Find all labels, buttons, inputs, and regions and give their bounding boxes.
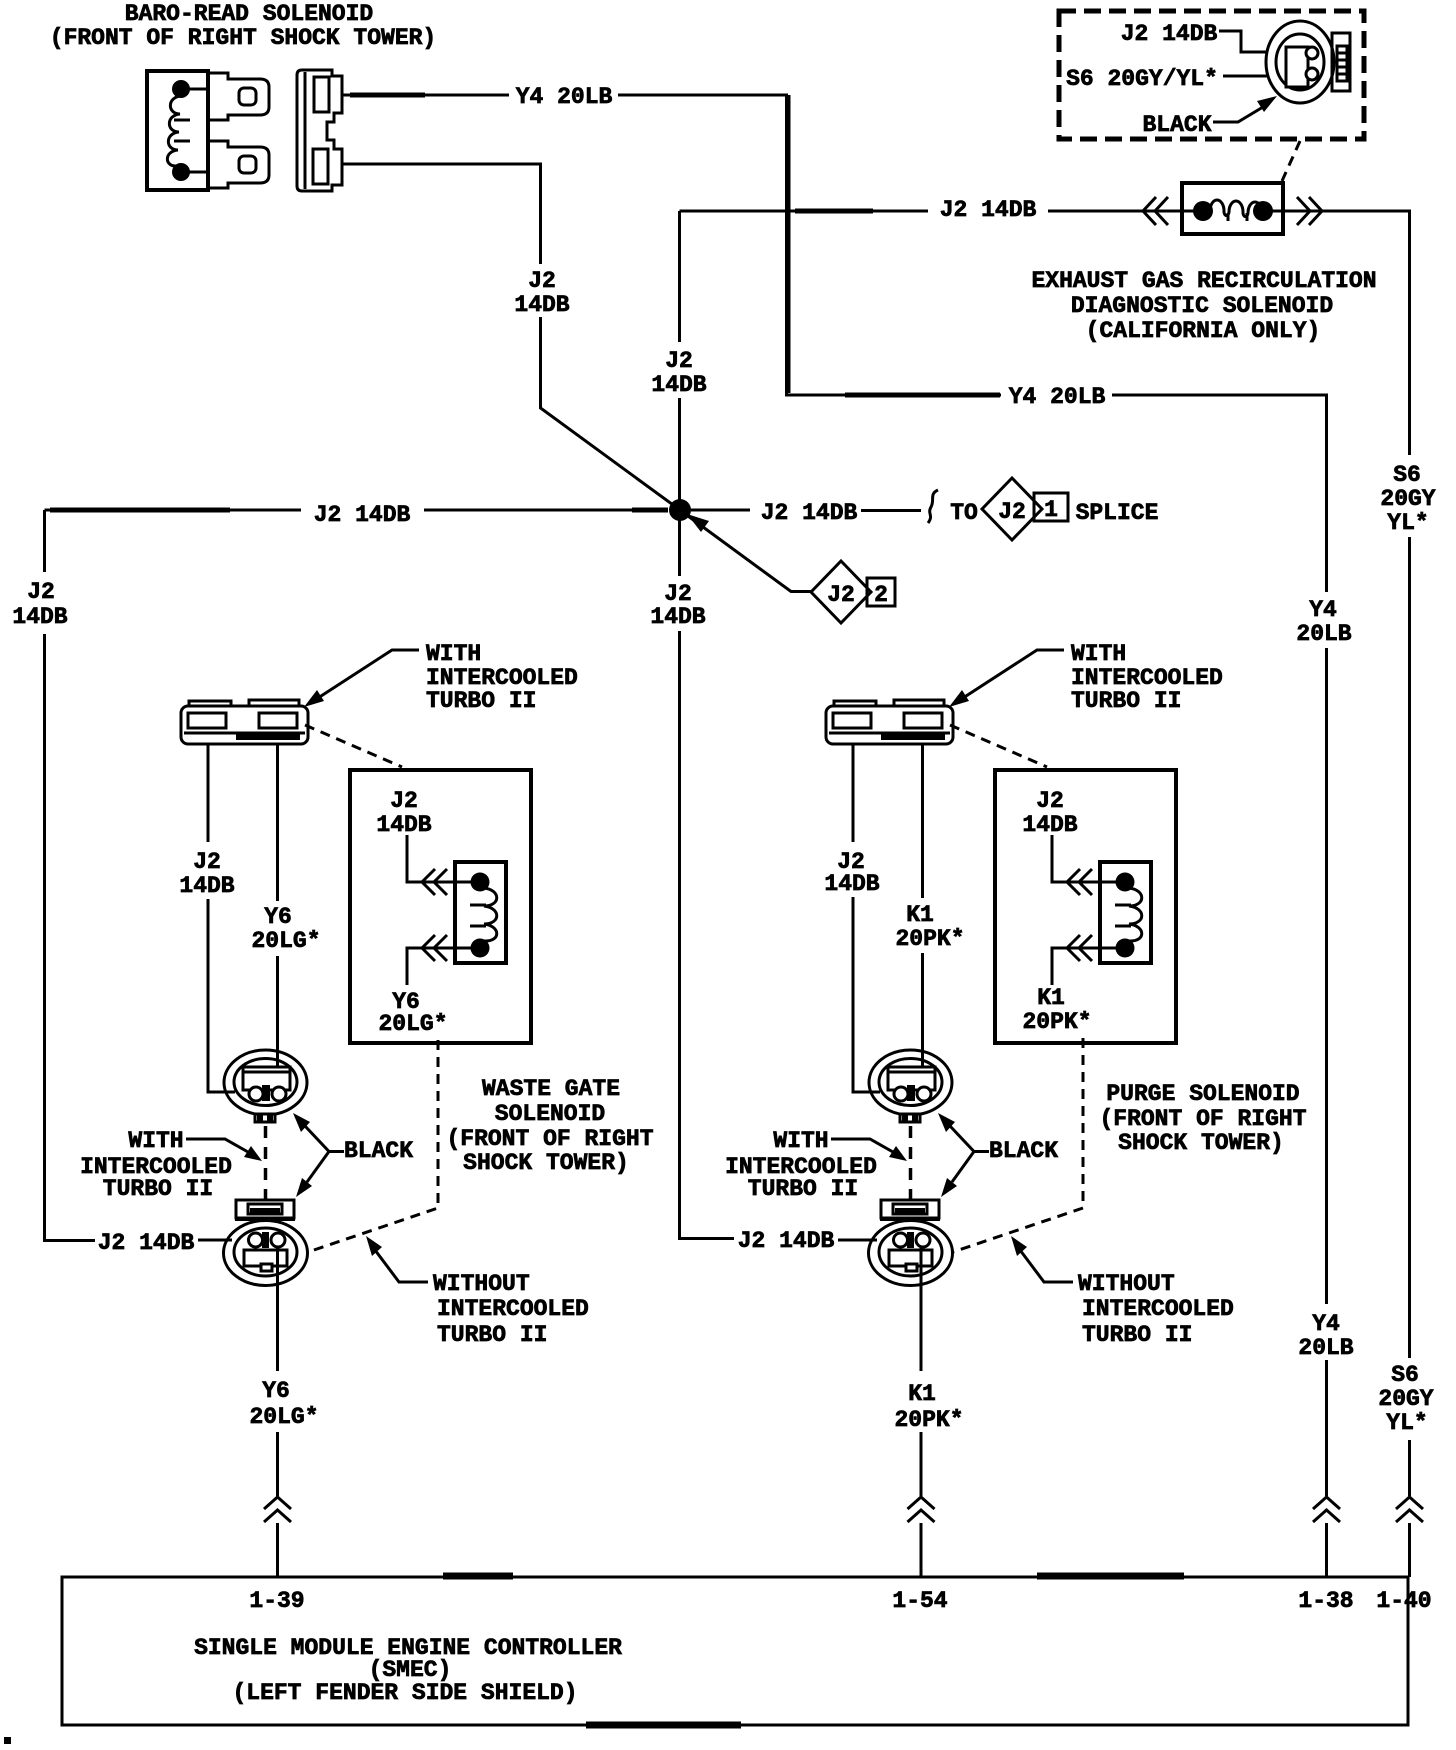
label WITH INTERCOOLED TURBO II (upper left) bbox=[426, 641, 578, 714]
wire J2 14DB from baro-read lower pin bbox=[342, 164, 541, 264]
svg-text:Y6: Y6 bbox=[262, 1378, 290, 1404]
svg-text:J2 14DB: J2 14DB bbox=[738, 1228, 835, 1254]
svg-text:DIAGNOSTIC SOLENOID: DIAGNOSTIC SOLENOID bbox=[1071, 293, 1333, 319]
svg-text:20PK*: 20PK* bbox=[1022, 1009, 1091, 1035]
waste gate coil bbox=[470, 873, 497, 958]
svg-text:INTERCOOLED: INTERCOOLED bbox=[1082, 1296, 1234, 1322]
wire Y6 into SMEC bbox=[276, 1523, 279, 1577]
svg-text:20LB: 20LB bbox=[1298, 1335, 1353, 1361]
dashed mating line (waste gate connectors) bbox=[264, 1126, 268, 1199]
label Y6 20LG* in waste gate box bbox=[378, 989, 447, 1037]
svg-text:WITHOUT: WITHOUT bbox=[1078, 1271, 1175, 1297]
svg-text:14DB: 14DB bbox=[179, 873, 234, 899]
label J2 14DB on x540 wire bbox=[514, 268, 569, 318]
inline connector chevrons << bbox=[1143, 197, 1168, 225]
svg-text:EXHAUST GAS RECIRCULATION: EXHAUST GAS RECIRCULATION bbox=[1031, 268, 1376, 294]
leader diagonal from splice to diamond 2 bbox=[688, 516, 811, 592]
svg-text:TURBO II: TURBO II bbox=[1082, 1322, 1192, 1348]
svg-text:1-54: 1-54 bbox=[892, 1588, 947, 1614]
baro-read upper terminal blade bbox=[208, 73, 269, 120]
wire Y4 20LB into right vertical bbox=[1112, 395, 1327, 592]
wire Y4 into SMEC bbox=[1325, 1523, 1328, 1577]
svg-text:J2: J2 bbox=[1036, 788, 1064, 814]
baro-read mating connector bbox=[297, 70, 342, 191]
label J2 14DB x679 upper bbox=[651, 348, 706, 398]
SMEC box edge thick marks bbox=[443, 1573, 1184, 1580]
label S6 20GY YL* (lower) bbox=[1378, 1362, 1433, 1436]
leader WITH side arrow bbox=[186, 1139, 262, 1161]
label Y4 20LB (upper vertical) bbox=[1296, 597, 1351, 647]
svg-text:14DB: 14DB bbox=[651, 372, 706, 398]
upper round connector (waste gate) bbox=[224, 1050, 307, 1122]
svg-text:S6: S6 bbox=[1391, 1362, 1419, 1388]
wire Y6 in waste gate box bbox=[407, 948, 472, 985]
arrowhead at splice bbox=[687, 514, 709, 532]
label WITH INTERCOOLED TURBO II (upper right) bbox=[1071, 641, 1223, 714]
wire S6 into SMEC bbox=[1408, 1523, 1411, 1577]
svg-text:TO: TO bbox=[950, 500, 978, 526]
dashed wire K1 without-turbo route bbox=[953, 1038, 1083, 1252]
svg-text:WITHOUT: WITHOUT bbox=[433, 1271, 530, 1297]
2-cavity connector (waste gate, top view) bbox=[181, 700, 308, 744]
lower round connector (waste gate) bbox=[224, 1200, 308, 1286]
wire J2 14DB into EGR solenoid bbox=[1048, 210, 1200, 213]
svg-text:TURBO II: TURBO II bbox=[748, 1176, 858, 1202]
svg-text:20LG*: 20LG* bbox=[378, 1011, 447, 1037]
label J2 14DB (right branch) bbox=[824, 849, 879, 897]
svg-text:1-38: 1-38 bbox=[1298, 1588, 1353, 1614]
svg-text:BLACK: BLACK bbox=[1142, 112, 1211, 138]
wire J2 14DB into lower connector bbox=[198, 1239, 232, 1242]
label Y4 20LB (lower) bbox=[1298, 1311, 1353, 1361]
label EXHAUST GAS RECIRCULATION DIAGNOSTIC SOLENOID bbox=[1031, 268, 1376, 344]
connector chevrons at SMEC (S6) bbox=[1396, 1497, 1423, 1522]
label J2 14DB in waste gate box bbox=[376, 788, 431, 838]
svg-text:(FRONT OF RIGHT: (FRONT OF RIGHT bbox=[1099, 1106, 1306, 1132]
svg-text:TURBO II: TURBO II bbox=[437, 1322, 547, 1348]
svg-text:J2: J2 bbox=[390, 788, 418, 814]
leader BLACK with arrow bbox=[1213, 96, 1277, 122]
wire Y6 through lower connector bbox=[276, 1247, 279, 1371]
svg-text:(FRONT OF RIGHT: (FRONT OF RIGHT bbox=[446, 1126, 653, 1152]
wire splice to TO-splice symbol bbox=[691, 509, 750, 512]
label WASTE GATE SOLENOID bbox=[446, 1076, 653, 1176]
chevrons << lower (waste gate) bbox=[422, 935, 447, 961]
svg-text:1-39: 1-39 bbox=[249, 1588, 304, 1614]
lower round connector (purge) bbox=[869, 1200, 953, 1286]
wire S6 to SMEC bbox=[1408, 1440, 1411, 1496]
label WITH INTERCOOLED TURBO II (side right) bbox=[725, 1128, 877, 1202]
wire J2 14DB EGR (left segment) bbox=[680, 210, 929, 213]
svg-text:20PK*: 20PK* bbox=[895, 926, 964, 952]
svg-text:14DB: 14DB bbox=[1022, 812, 1077, 838]
SMEC controller box bbox=[62, 1577, 1408, 1725]
svg-text:SOLENOID: SOLENOID bbox=[495, 1101, 605, 1127]
waste gate coil box bbox=[455, 862, 506, 963]
svg-text:S6 20GY/YL*: S6 20GY/YL* bbox=[1066, 66, 1218, 92]
svg-text:Y4: Y4 bbox=[1309, 597, 1337, 623]
wire J2 14DB vertical x679 (top) bbox=[678, 211, 681, 342]
svg-text:WITH: WITH bbox=[1071, 641, 1126, 667]
thick scan segments on wires bbox=[50, 95, 1000, 510]
leader BLACK two arrows bbox=[293, 1113, 344, 1197]
label K1 20PK* (upper) bbox=[895, 902, 964, 952]
label K1 20PK* in purge box bbox=[1022, 985, 1091, 1035]
baro-read solenoid body bbox=[147, 71, 208, 190]
svg-text:1: 1 bbox=[1044, 497, 1058, 523]
svg-text:J2 14DB: J2 14DB bbox=[761, 500, 858, 526]
EGR connector side tab bbox=[1332, 33, 1350, 91]
leader BLACK two arrows (purge) bbox=[938, 1113, 989, 1197]
svg-text:YL*: YL* bbox=[1387, 510, 1428, 536]
svg-text:14DB: 14DB bbox=[824, 871, 879, 897]
wire J2 14DB main horizontal (left) bbox=[45, 509, 302, 512]
svg-text:Y4 20LB: Y4 20LB bbox=[516, 84, 613, 110]
wire J2 14DB x679 through splice bbox=[678, 398, 681, 500]
label J2 14DB left vertical bbox=[12, 579, 67, 630]
svg-text:Y6: Y6 bbox=[264, 904, 292, 930]
label WITH INTERCOOLED TURBO II (side left) bbox=[80, 1128, 232, 1202]
wire J2 14DB in waste gate box bbox=[407, 835, 472, 882]
connector chevrons at SMEC (K1) bbox=[908, 1497, 935, 1522]
label K1 20PK* (lower) bbox=[894, 1381, 963, 1433]
leader WITH side arrow (purge) bbox=[831, 1139, 907, 1161]
EGR solenoid box bbox=[1182, 183, 1283, 234]
wire S6 vertical bbox=[1408, 537, 1411, 1358]
svg-text:J2: J2 bbox=[27, 579, 55, 605]
svg-text:(LEFT FENDER SIDE SHIELD): (LEFT FENDER SIDE SHIELD) bbox=[232, 1680, 577, 1706]
svg-text:BLACK: BLACK bbox=[344, 1138, 413, 1164]
svg-text:WITH: WITH bbox=[128, 1128, 183, 1154]
wire K1 in purge box bbox=[1052, 948, 1117, 985]
wire Y6 down to upper connector bbox=[276, 956, 279, 1087]
purge coil box bbox=[1100, 862, 1151, 963]
off-page symbol J2 diamond 2 bbox=[811, 561, 895, 623]
wire S6 out of EGR solenoid bbox=[1266, 211, 1410, 455]
svg-text:(CALIFORNIA ONLY): (CALIFORNIA ONLY) bbox=[1086, 318, 1321, 344]
off-page symbol J2 diamond 1 bbox=[982, 478, 1068, 540]
svg-text:J2 14DB: J2 14DB bbox=[98, 1230, 195, 1256]
svg-text:K1: K1 bbox=[906, 902, 934, 928]
wire J2 14DB down to upper connector (purge) bbox=[853, 897, 880, 1092]
svg-text:SHOCK TOWER): SHOCK TOWER) bbox=[463, 1150, 629, 1176]
svg-text:YL*: YL* bbox=[1386, 1410, 1427, 1436]
leader J2 14DB to connector bbox=[1219, 31, 1287, 52]
wire Y4 vertical bbox=[1325, 648, 1328, 1304]
svg-text:J2: J2 bbox=[827, 582, 855, 608]
wire K1 to SMEC bbox=[920, 1432, 923, 1496]
connector chevrons at SMEC (Y6) bbox=[264, 1497, 291, 1522]
svg-text:K1: K1 bbox=[908, 1381, 936, 1407]
wire J2 14DB from 2-cavity left slot bbox=[207, 744, 210, 842]
wire J2 14DB left vertical (top) bbox=[43, 510, 46, 572]
svg-text:PURGE SOLENOID: PURGE SOLENOID bbox=[1106, 1081, 1299, 1107]
wire Y6 to SMEC bbox=[276, 1432, 279, 1496]
label J2 14DB in purge box bbox=[1022, 788, 1077, 838]
svg-text:BARO-READ SOLENOID: BARO-READ SOLENOID bbox=[125, 1, 373, 27]
svg-text:TURBO II: TURBO II bbox=[1071, 688, 1181, 714]
EGR solenoid coil bbox=[1193, 200, 1273, 221]
upper round connector (purge) bbox=[869, 1050, 952, 1122]
svg-text:SHOCK TOWER): SHOCK TOWER) bbox=[1118, 1130, 1284, 1156]
dashed mating line (purge connectors) bbox=[909, 1126, 913, 1199]
svg-text:WITH: WITH bbox=[773, 1128, 828, 1154]
wire J2 14DB down to upper connector bbox=[208, 899, 235, 1092]
leader WITHOUT arrow bbox=[366, 1236, 428, 1282]
splice node dot bbox=[669, 499, 691, 521]
label J2 14DB (left branch) bbox=[179, 849, 234, 899]
svg-text:BLACK: BLACK bbox=[989, 1138, 1058, 1164]
wire J2 14DB x679 down to purge branch bbox=[680, 631, 735, 1239]
purge solenoid box bbox=[995, 770, 1176, 1043]
svg-text:Y4: Y4 bbox=[1312, 1311, 1340, 1337]
label BARO-READ SOLENOID bbox=[50, 1, 436, 51]
label Y6 20LG* (lower) bbox=[249, 1378, 318, 1430]
svg-text:J2: J2 bbox=[665, 348, 693, 374]
label Y6 20LG* (upper) bbox=[251, 904, 320, 954]
wire Y4 20LB from baro-read upper pin bbox=[342, 94, 509, 97]
svg-text:20GY: 20GY bbox=[1380, 486, 1435, 512]
svg-text:14DB: 14DB bbox=[376, 812, 431, 838]
stray mark bottom-left bbox=[4, 1737, 11, 1744]
wire Y4 to SMEC bbox=[1325, 1360, 1328, 1496]
wire J2 14DB in purge box bbox=[1052, 835, 1117, 882]
label WITHOUT INTERCOOLED TURBO II (left) bbox=[433, 1271, 589, 1348]
svg-text:WITH: WITH bbox=[426, 641, 481, 667]
wire J2 14DB from 2-cavity left slot (purge) bbox=[852, 744, 855, 842]
wire Y6 from 2-cavity right slot bbox=[276, 744, 279, 901]
svg-text:20GY: 20GY bbox=[1378, 1386, 1433, 1412]
svg-text:20LB: 20LB bbox=[1296, 621, 1351, 647]
svg-text:J2: J2 bbox=[528, 268, 556, 294]
inline connector chevrons >> bbox=[1297, 197, 1322, 225]
svg-text:14DB: 14DB bbox=[12, 604, 67, 630]
leader WITH arrow (upper left) bbox=[304, 650, 419, 707]
EGR connector face (round) bbox=[1266, 21, 1334, 103]
wire to break symbol bbox=[861, 509, 921, 512]
svg-text:WASTE GATE: WASTE GATE bbox=[482, 1076, 620, 1102]
leader S6 20GY/YL* to connector bbox=[1223, 75, 1272, 78]
chevrons << upper (waste gate) bbox=[422, 869, 447, 895]
chevrons << upper (purge) bbox=[1067, 869, 1092, 895]
dashed leader box to EGR solenoid bbox=[1282, 141, 1300, 181]
EGR detail dashed box bbox=[1059, 11, 1364, 139]
svg-text:1-40: 1-40 bbox=[1376, 1588, 1431, 1614]
svg-text:TURBO II: TURBO II bbox=[426, 688, 536, 714]
2-cavity connector (purge, top view) bbox=[826, 700, 953, 744]
svg-text:S6: S6 bbox=[1393, 462, 1421, 488]
label S6 20GY YL* (upper) bbox=[1380, 462, 1435, 536]
wire Y4 20LB to right elbow bbox=[618, 95, 1001, 395]
dashed wire Y6 without-turbo route bbox=[308, 1040, 438, 1252]
leader WITHOUT arrow (purge) bbox=[1011, 1236, 1073, 1282]
wire J2 14DB to splice bbox=[424, 509, 668, 512]
wire K1 down to upper connector bbox=[921, 953, 924, 1087]
wire K1 through lower connector bbox=[920, 1247, 923, 1371]
wire break squiggle bbox=[928, 490, 938, 523]
svg-text:TURBO II: TURBO II bbox=[103, 1176, 213, 1202]
label WITHOUT INTERCOOLED TURBO II (right) bbox=[1078, 1271, 1234, 1348]
coil inside baro-read solenoid bbox=[172, 80, 190, 98]
svg-text:(FRONT OF RIGHT SHOCK TOWER): (FRONT OF RIGHT SHOCK TOWER) bbox=[50, 25, 436, 51]
svg-text:J2: J2 bbox=[193, 849, 221, 875]
wire K1 from 2-cavity right slot bbox=[921, 744, 924, 898]
svg-text:INTERCOOLED: INTERCOOLED bbox=[437, 1296, 589, 1322]
svg-text:14DB: 14DB bbox=[514, 292, 569, 318]
wire J2 14DB left vertical (down) bbox=[45, 634, 96, 1241]
svg-text:2: 2 bbox=[874, 582, 888, 608]
svg-text:20LG*: 20LG* bbox=[249, 1404, 318, 1430]
svg-text:14DB: 14DB bbox=[650, 604, 705, 630]
label SINGLE MODULE ENGINE CONTROLLER (SMEC) bbox=[194, 1635, 622, 1706]
leader WITH arrow (upper right) bbox=[949, 650, 1064, 707]
svg-text:J2 14DB: J2 14DB bbox=[1121, 21, 1218, 47]
svg-text:20LG*: 20LG* bbox=[251, 928, 320, 954]
wire J2 14DB into lower connector (purge) bbox=[838, 1239, 877, 1242]
waste gate solenoid box bbox=[350, 770, 531, 1043]
svg-text:K1: K1 bbox=[1037, 985, 1065, 1011]
dashed leader connector to waste gate box bbox=[305, 725, 402, 767]
wire J2 14DB diagonal to splice bbox=[541, 317, 681, 510]
baro-read lower terminal blade bbox=[208, 141, 269, 188]
svg-text:J2: J2 bbox=[998, 499, 1026, 525]
wire below splice bbox=[678, 520, 681, 576]
wire K1 into SMEC bbox=[920, 1523, 923, 1577]
svg-text:20PK*: 20PK* bbox=[894, 1407, 963, 1433]
svg-text:Y4 20LB: Y4 20LB bbox=[1009, 384, 1106, 410]
chevrons << lower (purge) bbox=[1067, 935, 1092, 961]
label PURGE SOLENOID bbox=[1099, 1081, 1306, 1156]
connector chevrons at SMEC (Y4) bbox=[1313, 1497, 1340, 1522]
svg-text:J2 14DB: J2 14DB bbox=[940, 197, 1037, 223]
label J2 14DB below splice bbox=[650, 581, 705, 630]
dashed leader connector to purge box bbox=[950, 725, 1047, 767]
svg-text:J2 14DB: J2 14DB bbox=[314, 502, 411, 528]
purge coil bbox=[1115, 873, 1142, 958]
svg-text:SPLICE: SPLICE bbox=[1076, 500, 1159, 526]
